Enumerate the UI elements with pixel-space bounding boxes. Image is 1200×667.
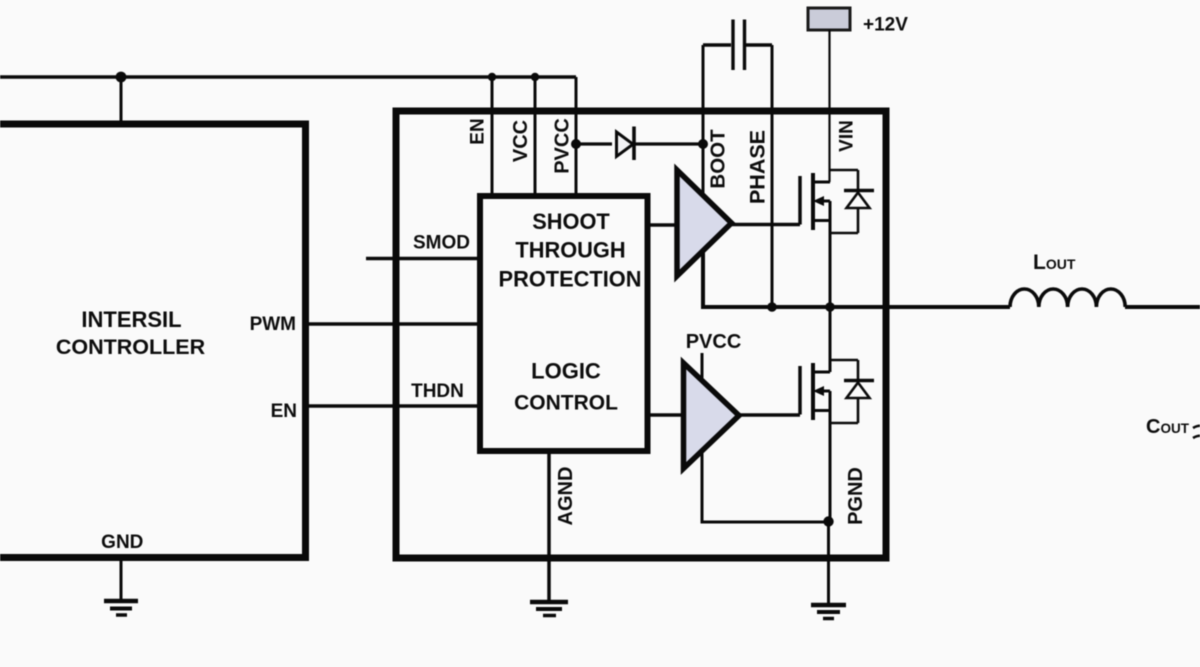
wire PHASE vertical <box>771 45 774 307</box>
transistor Q1 upper MOSFET <box>800 170 874 233</box>
wire diode cathode to BOOT <box>634 142 703 145</box>
op-amp U2 upper gate driver <box>677 170 732 276</box>
wire BOOT into driver top <box>702 144 705 194</box>
svg-text:VIN: VIN <box>837 120 858 152</box>
wire logic to upper driver input <box>648 223 678 227</box>
node junction PGND <box>823 516 833 526</box>
svg-text:CONTROL: CONTROL <box>514 392 618 415</box>
svg-text:THROUGH: THROUGH <box>515 238 625 263</box>
node junction BOOT-diode <box>698 139 708 149</box>
wire AGND stem <box>547 451 551 600</box>
wire lower driver return <box>702 452 828 522</box>
ground (controller GND) <box>104 601 138 615</box>
wire VCC top rail <box>0 75 576 79</box>
wire diode anode <box>576 142 612 145</box>
logic block box SHOOT THROUGH PROTECTION / LOGIC CONTROL <box>480 196 648 451</box>
wire EN to THDN <box>306 404 481 408</box>
svg-text:PVCC: PVCC <box>686 331 742 353</box>
svg-text:PHASE: PHASE <box>746 130 770 204</box>
svg-text:EN: EN <box>271 401 297 422</box>
wire upper gate <box>731 223 800 227</box>
svg-text:GND: GND <box>101 532 143 553</box>
svg-text:SHOOT: SHOOT <box>532 209 610 234</box>
wire PGND stem <box>827 522 830 604</box>
wire Q2 drain to phase <box>829 307 832 372</box>
capacitor C2 COUT (partial at edge) <box>1193 426 1200 438</box>
body arrow Q2 <box>813 386 824 396</box>
wire driver return to phase <box>701 250 705 307</box>
op-amp U3 lower gate driver <box>684 363 740 469</box>
wire PVCC stub into lower driver <box>701 353 704 380</box>
transistor Q2 lower MOSFET <box>800 360 874 423</box>
wire phase rail <box>703 250 1010 307</box>
node junction EN tap <box>488 73 496 81</box>
svg-text:VCC: VCC <box>510 120 532 162</box>
op-amp U1 controller box INTERSIL CONTROLLER <box>0 124 306 558</box>
wire EN vertical into driver box <box>491 77 494 196</box>
wire Q2 source to PGND <box>829 391 832 522</box>
wire Q1 source to phase <box>829 201 832 307</box>
svg-text:LOGIC: LOGIC <box>531 359 601 384</box>
wire VCC vertical into driver box <box>534 77 537 196</box>
capacitor C1 bootstrap <box>703 20 772 71</box>
node junction PVCC-diode <box>571 139 581 149</box>
wire GND stem <box>120 557 123 599</box>
inductor L1 LOUT <box>1010 289 1125 307</box>
svg-text:INTERSIL: INTERSIL <box>81 307 181 332</box>
svg-text:BOOT: BOOT <box>707 129 730 189</box>
svg-text:SMOD: SMOD <box>413 233 470 254</box>
wire lower gate <box>739 413 801 417</box>
svg-text:AGND: AGND <box>555 467 577 526</box>
ground PGND <box>811 605 846 619</box>
driver IC outer box <box>396 111 886 558</box>
wire PVCC vertical from top rail corner <box>575 77 578 196</box>
svg-text:PGND: PGND <box>845 467 867 525</box>
svg-text:+12V: +12V <box>863 15 908 36</box>
svg-text:PVCC: PVCC <box>552 118 574 174</box>
svg-text:PWM: PWM <box>250 314 296 335</box>
svg-text:EN: EN <box>468 118 489 144</box>
ground AGND <box>530 602 568 616</box>
wire BOOT vertical <box>702 45 705 193</box>
svg-text:PROTECTION: PROTECTION <box>499 267 642 292</box>
svg-text:THDN: THDN <box>411 381 464 402</box>
wire PWM <box>306 322 481 326</box>
node junction PHASE on rail <box>767 302 777 312</box>
node junction FET source on rail <box>825 302 835 312</box>
wire SMOD stub <box>366 257 480 261</box>
wire from top rail to controller top <box>120 77 123 124</box>
node junction on top rail above controller <box>116 72 127 83</box>
node junction VCC tap <box>531 73 539 81</box>
svg-text:CONTROLLER: CONTROLLER <box>56 335 206 359</box>
power supply +12V terminal <box>808 8 850 30</box>
wire +12V to VIN <box>828 30 830 182</box>
wire logic to lower driver input <box>648 413 685 417</box>
body arrow Q1 <box>813 196 824 206</box>
diode D1 <box>617 127 635 161</box>
